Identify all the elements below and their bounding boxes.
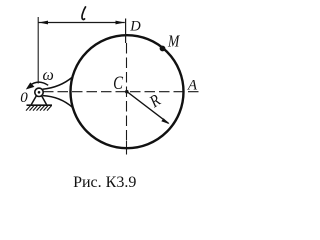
wire: tick crossing circle bottom bbox=[126, 141, 128, 155]
ground hatching bbox=[26, 106, 52, 111]
support triangle bbox=[31, 95, 46, 104]
crank link O to circle bbox=[43, 77, 73, 89]
svg-text:D: D bbox=[129, 19, 141, 35]
radius R arrowhead bbox=[161, 118, 169, 124]
label l (script ell) bbox=[82, 6, 86, 19]
label C bbox=[113, 72, 123, 93]
label R bbox=[146, 91, 164, 112]
dimension l line bbox=[39, 22, 125, 24]
svg-text:Рис. К3.9: Рис. К3.9 bbox=[73, 174, 136, 191]
point M dot on circle bbox=[160, 46, 166, 52]
svg-text:ω: ω bbox=[43, 67, 54, 84]
wire: horizontal dashed centerline through C bbox=[43, 91, 199, 93]
radius R line bbox=[127, 92, 169, 124]
dimension arrowhead right bbox=[116, 21, 125, 25]
node C center dot bbox=[125, 90, 129, 94]
svg-text:C: C bbox=[113, 72, 123, 93]
pivot O pin dot bbox=[38, 91, 41, 94]
pivot O hinge circle bbox=[35, 88, 43, 96]
circle (disk) bbox=[71, 35, 184, 148]
svg-text:0: 0 bbox=[20, 90, 28, 106]
dimension l: extension line above O bbox=[37, 17, 39, 84]
svg-text:M: M bbox=[167, 32, 180, 51]
ground line bbox=[27, 104, 53, 106]
svg-text:A: A bbox=[187, 78, 198, 94]
label M bbox=[167, 32, 180, 51]
omega arc arrow bbox=[30, 82, 49, 85]
dimension l: extension tick at D bbox=[125, 19, 127, 44]
wire: vertical dashed centerline through C bbox=[126, 43, 128, 141]
dimension arrowhead left bbox=[39, 21, 48, 25]
